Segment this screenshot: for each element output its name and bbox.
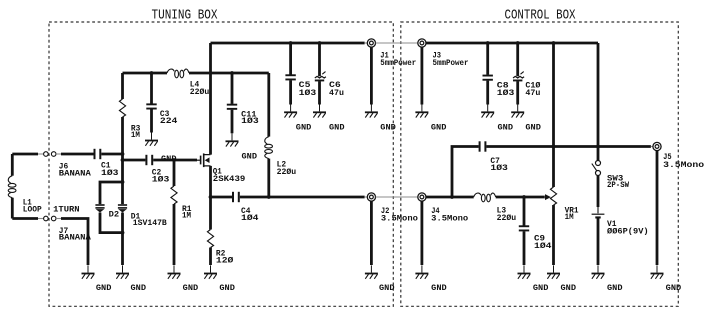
svg-text:BANANA: BANANA <box>59 169 91 178</box>
svg-text:1Ø4: 1Ø4 <box>534 242 552 251</box>
wire J4 to L3 <box>426 196 474 199</box>
svg-text:1Ø3: 1Ø3 <box>299 89 317 98</box>
svg-text:LOOP: LOOP <box>23 205 42 214</box>
wire y73 rail down to R3 <box>121 73 124 99</box>
svg-text:GND: GND <box>431 284 447 293</box>
wire L1 bottom lead <box>11 198 14 219</box>
wire C6 to ground <box>318 81 321 104</box>
svg-text:GND: GND <box>525 124 541 133</box>
ground (C9) <box>518 265 531 278</box>
wire VR1 bottom to ground <box>552 205 555 265</box>
control box dashed border <box>401 22 679 306</box>
wire J6 to C1 <box>61 153 94 156</box>
svg-text:GND: GND <box>329 124 345 133</box>
wire R2 to ground <box>209 248 212 266</box>
connector J6 banana <box>44 152 56 157</box>
capacitor C10 electrolytic <box>513 72 524 82</box>
wire to C3 <box>150 73 153 104</box>
capacitor C2 plates <box>145 155 153 165</box>
svg-text:GND: GND <box>380 124 396 133</box>
junction C11 stub <box>230 71 234 75</box>
svg-text:22Øu: 22Øu <box>277 168 297 177</box>
battery V1 006P(9V) <box>592 214 605 219</box>
svg-text:GND: GND <box>666 284 682 293</box>
ground (J2) <box>365 265 378 278</box>
svg-text:22Øu: 22Øu <box>190 88 210 97</box>
svg-text:224: 224 <box>160 117 178 126</box>
wire L4 to L2 corner <box>189 72 269 75</box>
svg-text:GND: GND <box>379 284 395 293</box>
capacitor C11 plates <box>227 104 237 110</box>
ground (R2) <box>204 265 217 278</box>
wire loop bottom to J7 <box>12 217 38 220</box>
svg-text:ØØ6P(9V): ØØ6P(9V) <box>607 228 649 237</box>
wire J5 sleeve to ground <box>656 151 659 265</box>
wire tank node to L4 <box>123 72 168 75</box>
ground (R1) <box>168 265 181 278</box>
svg-text:1SV147B: 1SV147B <box>133 219 167 228</box>
wire thin lead into J6 <box>38 153 44 155</box>
svg-text:GND: GND <box>96 284 112 293</box>
connector J4 3.5Mono <box>418 193 426 201</box>
junction C5 stub <box>289 41 293 45</box>
svg-text:1Ø3: 1Ø3 <box>101 169 119 178</box>
junction R1 top <box>172 158 176 162</box>
svg-text:GND: GND <box>161 155 177 164</box>
junction C6 stub <box>318 41 322 45</box>
ground (D1 D2) <box>116 265 129 278</box>
svg-text:1Ø3: 1Ø3 <box>497 89 515 98</box>
svg-text:GND: GND <box>242 152 258 161</box>
svg-text:GND: GND <box>131 284 147 293</box>
svg-text:12Ø: 12Ø <box>216 256 234 265</box>
svg-text:GND: GND <box>219 284 235 293</box>
wire D1 to ground <box>121 213 124 266</box>
junction C3 stub <box>150 71 154 75</box>
wire node A to C2 <box>123 159 146 162</box>
svg-text:GND: GND <box>561 284 577 293</box>
wire branch to D2 <box>100 182 123 204</box>
inductor L2 <box>265 137 273 159</box>
diode D2 varactor <box>95 204 104 212</box>
connector J5 3.5Mono <box>653 142 661 150</box>
wire thin lead into J7 <box>38 218 44 220</box>
wire to C5 <box>289 43 292 75</box>
capacitor C8 plates <box>483 75 493 81</box>
junction at J5 feed wire <box>596 145 600 149</box>
junction L2 output <box>267 195 271 199</box>
wire battery to ground <box>597 219 600 266</box>
svg-text:47u: 47u <box>525 89 540 98</box>
wire C8 to ground <box>486 81 489 105</box>
wire to C8 <box>486 43 489 75</box>
wire C4 to J2 <box>240 196 365 199</box>
svg-text:GND: GND <box>296 124 312 133</box>
wire to C10 <box>516 43 519 76</box>
junction node A lower <box>121 158 125 162</box>
ground (C5) <box>284 104 297 117</box>
svg-text:1Ø3: 1Ø3 <box>490 164 508 173</box>
resistor R1 zigzag <box>171 186 177 204</box>
svg-text:GND: GND <box>533 284 549 293</box>
svg-text:GND: GND <box>431 124 447 133</box>
ground (J7) <box>82 265 95 278</box>
ground (C10) <box>511 104 524 117</box>
svg-text:5mmPower: 5mmPower <box>380 59 416 68</box>
capacitor C7 plates <box>479 141 487 151</box>
connector J1 5mmPower <box>367 39 375 47</box>
svg-text:BANANA: BANANA <box>59 234 91 243</box>
wire to C9 <box>523 197 526 226</box>
wire C2 to Q1 gate <box>153 159 197 162</box>
svg-text:GND: GND <box>183 284 199 293</box>
wire J1 sleeve to ground <box>370 47 373 104</box>
svg-text:1Ø3: 1Ø3 <box>241 117 259 126</box>
junction node A upper <box>121 152 125 156</box>
wire C9 to ground <box>523 231 526 265</box>
junction VR1 riser <box>552 41 556 45</box>
svg-text:1Ø4: 1Ø4 <box>241 214 259 223</box>
junction C8 stub <box>486 41 490 45</box>
wire R1 top lead <box>173 160 176 186</box>
capacitor C4 plates <box>232 192 240 202</box>
ground (C3) <box>145 132 158 145</box>
ground (VR1) <box>547 265 560 278</box>
wire Q1 drain to rail <box>209 43 212 155</box>
wire J3 sleeve to ground <box>420 47 423 104</box>
wire thin lead from J6 <box>56 153 61 155</box>
svg-text:GND: GND <box>607 284 623 293</box>
wire link J1 to J3 <box>376 42 418 44</box>
svg-text:TUNING BOX: TUNING BOX <box>152 7 218 23</box>
svg-text:5mmPower: 5mmPower <box>433 59 469 68</box>
svg-text:2P-SW: 2P-SW <box>607 181 629 190</box>
wire lead into J1 <box>365 42 368 44</box>
junction VR1 riser crossing <box>552 145 556 149</box>
wire riser to C7 <box>452 147 479 198</box>
junction source node <box>209 195 213 199</box>
connector J3 5mmPower <box>418 39 426 47</box>
ground (C6) <box>313 104 326 117</box>
wire L1 top lead <box>11 154 14 176</box>
svg-text:2SK439: 2SK439 <box>213 175 246 184</box>
svg-text:1TURN: 1TURN <box>53 205 80 214</box>
wire J2 sleeve to ground <box>370 201 373 265</box>
svg-text:47u: 47u <box>329 89 344 98</box>
wire C11 to ground <box>231 110 234 134</box>
ground (J3) <box>415 104 428 117</box>
switch SW3 2P-SW <box>592 161 601 176</box>
wire power rail to J1 <box>211 42 365 45</box>
wiper arrow of VR1 <box>545 194 551 200</box>
inductor L3 <box>474 193 496 202</box>
wire L2 to output node <box>267 159 270 197</box>
wire C3 to ground <box>150 109 153 132</box>
resistor R2 zigzag <box>207 230 213 248</box>
diode D1 varactor <box>118 204 127 212</box>
connector J2 3.5Mono <box>367 193 375 201</box>
wire rail corner down to SW3 <box>597 43 600 160</box>
resistor R3 zigzag <box>119 99 125 117</box>
wire C5 to ground <box>289 80 292 104</box>
wire link J2 to J4 <box>376 196 418 198</box>
wire thin lead into battery <box>597 207 599 213</box>
junction C9 stub <box>522 195 526 199</box>
svg-text:GND: GND <box>498 124 514 133</box>
wire C1 to node A <box>101 153 122 156</box>
svg-text:D2: D2 <box>109 210 120 219</box>
svg-text:1Ø3: 1Ø3 <box>152 175 170 184</box>
capacitor C5 plates <box>285 74 295 80</box>
wire SW3 to battery V1 <box>597 176 600 207</box>
capacitor C6 electrolytic <box>315 72 326 82</box>
ground (C8) <box>481 104 494 117</box>
junction C10 stub <box>516 41 520 45</box>
wire to C6 <box>318 43 321 76</box>
connector J7 banana <box>44 216 56 221</box>
svg-text:22Øu: 22Øu <box>497 214 517 223</box>
svg-text:3.5Mono: 3.5Mono <box>431 214 468 223</box>
svg-text:1M: 1M <box>565 213 574 222</box>
junction C7 riser <box>450 195 454 199</box>
capacitor C1 plates <box>94 149 102 159</box>
junction D2 branch top <box>121 180 125 184</box>
wire rail to VR1 top <box>552 43 555 187</box>
wire to C11 <box>231 73 234 104</box>
wire control power rail <box>426 42 598 45</box>
svg-text:CONTROL BOX: CONTROL BOX <box>505 7 576 23</box>
wire down to L2 <box>267 73 270 137</box>
wire source node to C4 <box>211 196 233 199</box>
wire R3 bottom through node A to D1 <box>121 117 124 204</box>
wire lead into J2 <box>365 196 368 198</box>
wire J7 to ground <box>61 219 88 266</box>
ground (J4) <box>415 265 428 278</box>
wire lead into J5 <box>651 146 653 148</box>
potentiometer VR1 zigzag <box>550 187 556 205</box>
ground (J1) <box>365 104 378 117</box>
svg-text:3.5Mono: 3.5Mono <box>381 214 418 223</box>
wire thin lead from J7 <box>56 218 61 220</box>
inductor L4 <box>167 69 189 78</box>
wire Q1 source down <box>209 166 212 230</box>
svg-text:1M: 1M <box>131 131 140 140</box>
capacitor C9 plates <box>519 225 529 231</box>
ground (J5) <box>651 265 664 278</box>
wire C10 to ground <box>516 81 519 104</box>
ground (V1) <box>592 265 605 278</box>
transistor Q1 2SK439 <box>197 153 211 167</box>
inductor L1 <box>8 176 16 198</box>
wire D2 to D1 bottom <box>100 213 123 233</box>
capacitor C3 plates <box>146 103 156 109</box>
wire loop top from L1 to J6 <box>12 153 38 156</box>
ground (C11) <box>226 133 239 146</box>
tuning box dashed border <box>49 22 393 306</box>
wire L3 to VR1 wiper <box>496 196 545 199</box>
svg-text:3.5Mono: 3.5Mono <box>663 161 704 170</box>
svg-text:1M: 1M <box>182 212 191 221</box>
wire C7 to J5 <box>486 145 651 148</box>
wire J4 sleeve to ground <box>420 201 423 265</box>
junction D2 branch bottom <box>121 231 125 235</box>
wire R1 to ground <box>173 204 176 265</box>
